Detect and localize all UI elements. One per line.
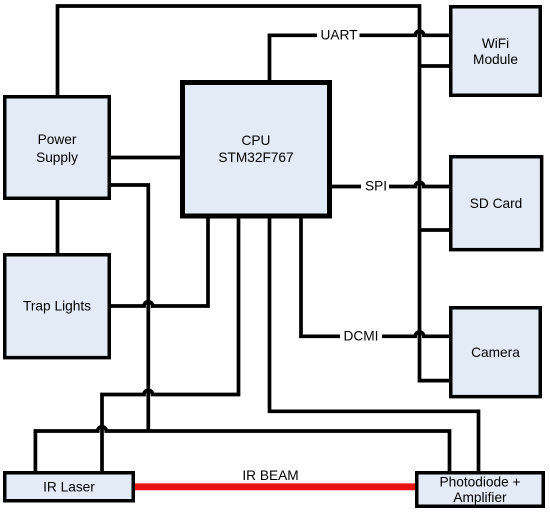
box WiFi Module xyxy=(451,7,541,96)
svg-text:WiFi: WiFi xyxy=(482,36,509,51)
svg-text:SPI: SPI xyxy=(365,179,387,194)
wire CPU bottom pin 3 to Photodiode xyxy=(270,218,479,471)
svg-text:Camera: Camera xyxy=(471,345,520,360)
svg-text:CPU: CPU xyxy=(242,133,271,148)
wire bus to SD Card connector xyxy=(420,228,450,232)
box SD Card xyxy=(451,157,542,250)
box Camera xyxy=(451,308,541,397)
box Power Supply xyxy=(5,97,110,199)
svg-text:Module: Module xyxy=(473,52,518,67)
wire Power Supply to Trap Lights xyxy=(56,200,60,253)
wire DCMI: CPU bottom pin 4 to Camera with hop over bus xyxy=(301,218,449,336)
wire IR Laser to Photodiode feed line with hop xyxy=(35,427,449,471)
wire power bus: Power Supply top to right-side vertical bus down to Camera xyxy=(58,6,450,381)
box Photodiode + Amplifier xyxy=(417,473,544,507)
wire UART: CPU top to WiFi Module with hop over bus xyxy=(270,31,450,81)
svg-text:SD Card: SD Card xyxy=(470,196,522,211)
svg-text:IR BEAM: IR BEAM xyxy=(242,468,298,483)
svg-text:IR Laser: IR Laser xyxy=(43,480,95,495)
svg-text:STM32F767: STM32F767 xyxy=(218,150,293,165)
svg-text:Supply: Supply xyxy=(36,150,78,165)
wire Power Supply lower branch down to laser feed line xyxy=(111,185,148,431)
wire SPI: CPU right to SD Card with hop over bus xyxy=(332,182,449,186)
svg-text:Photodiode +: Photodiode + xyxy=(439,475,520,490)
box CPU STM32F767 xyxy=(183,83,330,217)
svg-text:Power: Power xyxy=(38,132,77,147)
wire Power Supply to CPU xyxy=(111,156,180,160)
svg-text:DCMI: DCMI xyxy=(344,329,379,344)
svg-text:Trap Lights: Trap Lights xyxy=(23,299,91,314)
svg-text:UART: UART xyxy=(320,27,358,42)
wire Trap Lights to CPU bottom pin 1 with hop xyxy=(111,218,208,306)
svg-text:Amplifier: Amplifier xyxy=(453,490,507,505)
box IR Laser xyxy=(5,473,134,501)
wire IR BEAM red beam xyxy=(135,483,416,490)
wire CPU bottom pin 2 to IR Laser with hop xyxy=(102,218,239,471)
box Trap Lights xyxy=(5,255,110,358)
wire bus to WiFi Module connector xyxy=(420,64,450,68)
